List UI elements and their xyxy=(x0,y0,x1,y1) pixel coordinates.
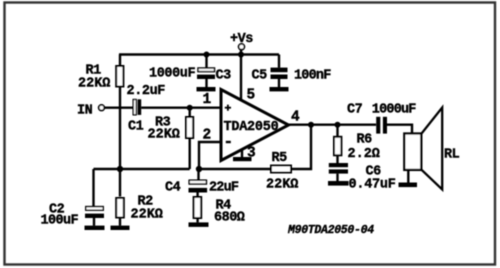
wire IN to C1 xyxy=(104,106,133,108)
svg-text:0.47uF: 0.47uF xyxy=(349,178,396,193)
speaker RL xyxy=(404,134,421,170)
svg-text:C7: C7 xyxy=(347,103,363,118)
capacitor C2 xyxy=(92,169,94,207)
junction dot output/R6 xyxy=(335,122,341,128)
ground (speaker) xyxy=(399,183,418,188)
svg-text:680Ω: 680Ω xyxy=(214,211,245,226)
svg-text:IN: IN xyxy=(77,104,93,119)
resistor R4 xyxy=(194,197,202,218)
svg-text:22KΩ: 22KΩ xyxy=(131,208,163,223)
ground (pin 3) xyxy=(233,157,252,161)
speaker ground lead xyxy=(407,170,409,183)
svg-text:2.2Ω: 2.2Ω xyxy=(348,147,380,162)
ground (R4) xyxy=(189,222,209,227)
junction dot output/R5 xyxy=(308,122,314,128)
pin 3 ground stub xyxy=(241,149,243,158)
svg-text:1000uF: 1000uF xyxy=(372,103,417,118)
capacitor C6 xyxy=(329,163,348,167)
minus input marker xyxy=(226,141,231,143)
wire C7 to speaker xyxy=(387,125,412,134)
node IN terminal xyxy=(99,105,105,111)
svg-text:TDA2050: TDA2050 xyxy=(224,120,279,135)
+Vs terminal circle xyxy=(239,44,245,50)
svg-text:22uF: 22uF xyxy=(209,181,239,196)
ground (C5) xyxy=(270,87,289,91)
svg-text:C5: C5 xyxy=(252,69,268,84)
resistor R2 xyxy=(119,169,121,197)
ground (R2) xyxy=(111,226,130,230)
resistor R6 xyxy=(336,125,338,137)
junction dot C3/bus xyxy=(204,52,210,58)
wire R5 to output xyxy=(291,125,311,169)
resistor R5 xyxy=(271,166,291,173)
svg-text:22KΩ: 22KΩ xyxy=(148,128,180,143)
resistor R1 xyxy=(119,55,121,67)
wire +Vs supply bus xyxy=(119,53,279,55)
capacitor C7 xyxy=(376,117,380,134)
svg-text:2.2uF: 2.2uF xyxy=(127,84,166,99)
op-amp U1 TDA2050 xyxy=(221,90,289,161)
wire C1 to op-amp pin1 xyxy=(141,106,220,108)
ground (C2) xyxy=(85,226,105,230)
svg-text:5: 5 xyxy=(247,88,255,104)
junction dot pin2/C4/R5 xyxy=(196,166,202,172)
svg-text:C3: C3 xyxy=(216,69,232,84)
ground (C6) xyxy=(328,181,349,186)
svg-text:R6: R6 xyxy=(357,133,373,148)
svg-text:C4: C4 xyxy=(165,181,181,196)
svg-text:22KΩ: 22KΩ xyxy=(78,77,110,92)
svg-text:4: 4 xyxy=(291,110,300,126)
junction dot R1/R2/bias xyxy=(117,166,123,172)
wire output pin4 xyxy=(289,123,377,125)
svg-text:C1: C1 xyxy=(128,120,144,135)
svg-text:M90TDA2050-04: M90TDA2050-04 xyxy=(287,224,374,237)
svg-text:RL: RL xyxy=(444,148,460,163)
svg-text:100uF: 100uF xyxy=(41,214,79,229)
svg-text:1000uF: 1000uF xyxy=(149,67,196,82)
wire +Vs vertical to pin 5 xyxy=(240,50,242,101)
wire pin2 node to R5 xyxy=(199,168,271,170)
svg-text:R5: R5 xyxy=(272,151,288,166)
junction dot +Vs/bus xyxy=(238,52,244,58)
svg-text:100nF: 100nF xyxy=(294,69,331,84)
svg-text:1: 1 xyxy=(203,92,212,108)
capacitor C4 xyxy=(197,169,199,180)
resistor R3 xyxy=(188,108,190,117)
wire pin2 xyxy=(199,142,220,169)
capacitor C3 xyxy=(205,55,207,68)
plus input marker xyxy=(225,105,231,111)
capacitor C5 xyxy=(278,55,280,68)
svg-text:22KΩ: 22KΩ xyxy=(266,178,298,193)
junction dot pin1/R3 xyxy=(187,105,193,111)
ground (C3) xyxy=(197,87,216,91)
wire bias node line xyxy=(94,168,190,170)
capacitor C1 xyxy=(133,100,136,115)
